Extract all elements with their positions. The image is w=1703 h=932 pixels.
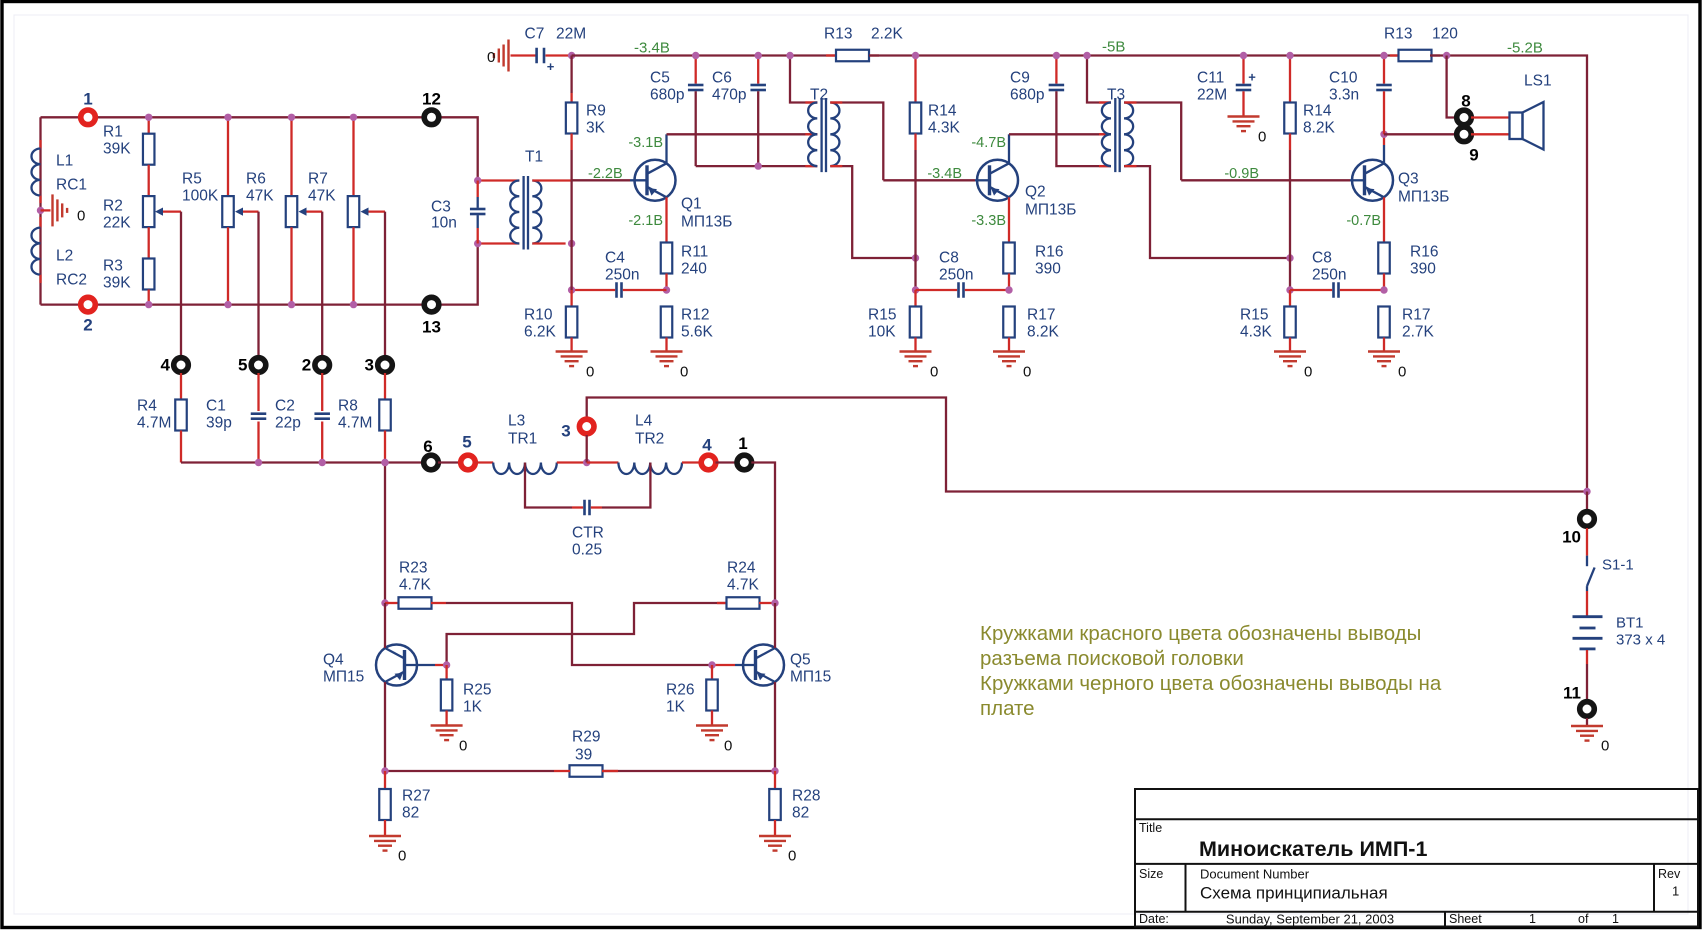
svg-text:C10: C10 (1329, 70, 1358, 87)
svg-text:5.6K: 5.6K (681, 324, 714, 341)
svg-text:Size: Size (1139, 867, 1163, 881)
wire pin3 column to R23 (384, 463, 386, 604)
svg-text:-0.7В: -0.7В (1346, 213, 1381, 229)
wire T2 secondary top (830, 103, 883, 181)
svg-text:3: 3 (561, 422, 570, 441)
svg-text:+: + (1248, 70, 1256, 85)
svg-text:2: 2 (83, 316, 92, 335)
svg-text:R24: R24 (727, 560, 756, 577)
node R6 bottom (288, 301, 295, 308)
resistor R4 4.7M (180, 373, 182, 400)
svg-text:S1-1: S1-1 (1602, 557, 1634, 574)
svg-text:Sheet: Sheet (1449, 912, 1482, 926)
svg-text:10: 10 (1562, 528, 1581, 547)
wire T3 secondary top (1124, 103, 1181, 181)
ground R28 (759, 835, 791, 837)
svg-text:0.25: 0.25 (572, 542, 602, 559)
svg-text:Sunday, September 21, 2003: Sunday, September 21, 2003 (1226, 912, 1394, 927)
svg-text:0: 0 (680, 364, 688, 381)
svg-text:0: 0 (1601, 738, 1609, 755)
wire T1 primary left bottom (478, 242, 520, 244)
node R11 bottom (663, 286, 670, 293)
wire to speaker pin 8 (1447, 56, 1457, 118)
wire R29 leads (554, 770, 570, 772)
wire R14b node down (1289, 258, 1291, 290)
svg-text:22p: 22p (275, 415, 301, 432)
svg-text:120: 120 (1432, 26, 1458, 43)
wire R2 wiper to pin 4 (180, 212, 182, 357)
transistor Q2 MP13B (977, 160, 1018, 201)
svg-text:R4: R4 (137, 398, 157, 415)
svg-text:CTR: CTR (572, 525, 604, 542)
wire top loop right (441, 117, 478, 180)
svg-text:3K: 3K (586, 120, 606, 137)
node R24 right (771, 599, 778, 606)
ground R15 (900, 350, 932, 352)
resistor R15 10K (914, 290, 916, 307)
svg-text:4.7M: 4.7M (338, 415, 372, 432)
svg-text:1K: 1K (666, 699, 686, 716)
wire Q5 collector (774, 603, 776, 648)
wire Q4 base cross-couple to R24 (447, 603, 727, 665)
svg-text:0: 0 (788, 848, 796, 865)
svg-text:TR1: TR1 (508, 431, 537, 448)
svg-text:470p: 470p (712, 87, 746, 104)
svg-text:4: 4 (161, 356, 171, 375)
resistor R13 2.2K (826, 54, 836, 56)
resistor R28 82 (774, 771, 776, 789)
ground C11 (1228, 115, 1260, 117)
svg-text:12: 12 (422, 90, 441, 109)
svg-text:250n: 250n (605, 267, 639, 284)
resistor R15 4.3K (1289, 290, 1291, 307)
node supply C7 (568, 52, 575, 59)
head pin 8 (black) (1454, 108, 1474, 128)
svg-text:-3.4В: -3.4В (927, 166, 962, 182)
ground R10 (556, 350, 588, 352)
capacitor C3 10n (477, 181, 479, 198)
svg-text:240: 240 (681, 261, 707, 278)
node C11 top (1240, 52, 1247, 59)
resistor R1 39K (148, 117, 150, 133)
head pin 5 (red) (458, 453, 478, 473)
wire Q1 collector to T2 mid (667, 133, 818, 135)
board pin 5 (black) (249, 355, 269, 375)
svg-text:R8: R8 (338, 398, 358, 415)
board pin 3 (black) (375, 355, 395, 375)
svg-text:R25: R25 (463, 682, 491, 699)
svg-text:R10: R10 (524, 307, 553, 324)
svg-text:-0.9В: -0.9В (1224, 166, 1259, 182)
svg-text:R13: R13 (1384, 26, 1412, 43)
node T3 secondary bottom (1286, 254, 1293, 261)
ground coil midpoint (51, 194, 53, 226)
svg-text:6: 6 (423, 437, 432, 456)
node R23 left (381, 599, 388, 606)
node T1 primary bottom (474, 240, 481, 247)
svg-text:0: 0 (1023, 364, 1031, 381)
resistor R16 390 (1003, 243, 1015, 274)
wire R7 wiper to pin 3 (384, 212, 386, 357)
svg-text:22M: 22M (1197, 87, 1227, 104)
board pin 6 (black) (421, 453, 441, 473)
node T2 secondary bottom (912, 254, 919, 261)
svg-text:8: 8 (1461, 92, 1470, 111)
wire C7 to node (546, 54, 572, 56)
wire long feedback horizontal (587, 398, 1587, 492)
svg-text:R7: R7 (308, 171, 328, 188)
svg-text:4.7K: 4.7K (727, 577, 760, 594)
svg-text:4.7M: 4.7M (137, 415, 171, 432)
capacitor C5 680p (695, 56, 697, 84)
board pin 13 (black) (422, 295, 442, 315)
node C1 bottom (255, 459, 262, 466)
svg-text:плате: плате (980, 697, 1035, 720)
node T2 top rail (786, 52, 793, 59)
node T3 top rail (1083, 52, 1090, 59)
wire C5 C6 to T2 primary bottom (696, 165, 818, 167)
battery BT1 373x4 (1573, 615, 1603, 618)
svg-text:L4: L4 (635, 413, 653, 430)
wire R6 wiper to pin 2 (321, 212, 323, 357)
svg-text:10n: 10n (431, 215, 457, 232)
ground R26 (696, 724, 728, 726)
wire T2 secondary to Q2 base (883, 179, 975, 181)
svg-text:2.2K: 2.2K (871, 26, 904, 43)
speaker LS1 (1510, 113, 1523, 140)
svg-text:0: 0 (398, 848, 406, 865)
wire to pin 10 (1586, 492, 1588, 511)
svg-text:82: 82 (792, 805, 809, 822)
node C8b left (1286, 286, 1293, 293)
svg-text:RC2: RC2 (56, 272, 87, 289)
wire supply rail segment 2 (869, 54, 1400, 56)
node R3 bottom (145, 301, 152, 308)
svg-text:Миноискатель ИМП-1: Миноискатель ИМП-1 (1199, 837, 1427, 861)
board pin 12 (black) (422, 108, 442, 128)
svg-text:4.3K: 4.3K (1240, 324, 1273, 341)
wire Q2 emitter (1008, 197, 1010, 242)
ground R17 (993, 350, 1025, 352)
resistor R11 240 (661, 243, 673, 274)
head pin 3 (red) (577, 417, 597, 437)
resistor R14 8.2K (1289, 56, 1291, 103)
svg-text:R12: R12 (681, 307, 709, 324)
svg-text:39K: 39K (103, 275, 131, 292)
capacitor C8 250n stage3 (1290, 289, 1332, 291)
wire bottom loop (41, 303, 423, 305)
svg-text:R1: R1 (103, 124, 123, 141)
svg-text:250n: 250n (1312, 267, 1346, 284)
connector pin 2 (red) (78, 295, 98, 315)
node Q3 collector (1380, 131, 1387, 138)
svg-text:390: 390 (1410, 261, 1436, 278)
svg-text:6.2K: 6.2K (524, 324, 557, 341)
coil L4 TR2 (618, 463, 682, 475)
wire R14 node down (914, 258, 916, 290)
resistor R29 39 (570, 765, 603, 777)
svg-text:47K: 47K (246, 188, 274, 205)
svg-text:0: 0 (586, 364, 594, 381)
resistor R14 4.3K (914, 56, 916, 103)
wire R23 to Q5 base (446, 603, 712, 665)
node R14 top (912, 52, 919, 59)
svg-text:R27: R27 (402, 788, 430, 805)
resistor R26 1K (711, 665, 713, 680)
resistor R25 1K (445, 665, 447, 680)
svg-text:Q4: Q4 (323, 652, 344, 669)
resistor R17 2.7K (1378, 307, 1390, 338)
node C10 top (1380, 52, 1387, 59)
svg-text:C3: C3 (431, 199, 451, 216)
node R6 top (288, 114, 295, 121)
svg-text:Title: Title (1139, 821, 1162, 835)
svg-text:0: 0 (1304, 364, 1312, 381)
svg-text:L3: L3 (508, 413, 525, 430)
svg-text:0: 0 (77, 208, 85, 225)
node R14b top (1286, 52, 1293, 59)
svg-text:R29: R29 (572, 729, 600, 746)
node Q4 base (443, 661, 450, 668)
svg-text:T2: T2 (810, 87, 828, 104)
svg-text:1: 1 (1529, 912, 1536, 926)
svg-text:R28: R28 (792, 788, 820, 805)
svg-text:R14: R14 (928, 103, 957, 120)
ground at C7 (507, 40, 509, 72)
capacitor C2 22p (321, 373, 323, 411)
wire Q2 collector (1008, 134, 1010, 163)
wire pin1 to Q5 collector column (751, 463, 775, 604)
svg-text:R9: R9 (586, 103, 606, 120)
svg-text:Date:: Date: (1139, 912, 1169, 926)
wire T3 secondary to Q3 base (1181, 179, 1350, 181)
node C4 left (568, 286, 575, 293)
node R1 top (145, 114, 152, 121)
capacitor C4 250n (572, 289, 616, 291)
svg-text:0: 0 (459, 738, 467, 755)
svg-text:5: 5 (462, 433, 471, 452)
wire node to L4 (587, 461, 619, 463)
svg-text:T1: T1 (525, 149, 543, 166)
svg-text:R16: R16 (1410, 244, 1438, 261)
svg-text:11: 11 (1563, 684, 1581, 703)
svg-text:4.7K: 4.7K (399, 577, 432, 594)
resistor R23 4.7K (385, 602, 399, 604)
node terminal row pin3 (381, 459, 388, 466)
wire Q4 base lead (405, 664, 436, 666)
wire T2 primary top to rail (790, 56, 817, 103)
wire T1 secondary top to base (532, 179, 571, 181)
resistor R17 8.2K (1003, 307, 1015, 338)
svg-text:0: 0 (487, 49, 495, 66)
svg-text:МП15: МП15 (790, 669, 831, 686)
svg-text:C8: C8 (1312, 250, 1332, 267)
wire pin8 to speaker (1471, 116, 1510, 118)
svg-text:2.7K: 2.7K (1402, 324, 1435, 341)
head pin 4 (red) (699, 453, 719, 473)
wire T1 secondary bottom (532, 242, 565, 244)
wire switch to battery (1586, 591, 1588, 616)
svg-text:R17: R17 (1402, 307, 1430, 324)
transistor Q3 MP13B (1352, 160, 1393, 201)
resistor R8 4.7M (384, 373, 386, 400)
svg-text:680p: 680p (650, 87, 684, 104)
coil L3 TR1 (493, 463, 557, 475)
board pin 11 (black) (1577, 699, 1597, 719)
svg-text:3.3n: 3.3n (1329, 87, 1359, 104)
svg-text:Кружками красного цвета обозна: Кружками красного цвета обозначены вывод… (980, 622, 1421, 645)
node coil midpoint (37, 207, 44, 214)
node C2 bottom (319, 459, 326, 466)
wire pin3 stub (586, 435, 588, 463)
wire pin 11 to ground (1586, 718, 1588, 726)
svg-text:LS1: LS1 (1524, 73, 1552, 90)
transistor Q5 MP15 (743, 645, 784, 686)
board pin 2 (black) (312, 355, 332, 375)
svg-text:L1: L1 (56, 153, 73, 170)
transformer T1 (510, 181, 519, 244)
board pin 4 (black) (171, 355, 191, 375)
svg-text:R13: R13 (824, 26, 852, 43)
wire R9 to T1 node (570, 180, 572, 243)
svg-text:5: 5 (238, 356, 247, 375)
board pin 1 (black) (735, 453, 755, 473)
capacitor C8 250n (916, 289, 958, 291)
node R5 top (224, 114, 231, 121)
svg-text:100K: 100K (182, 188, 219, 205)
switch S1-1 (1586, 556, 1588, 567)
ground R27 (369, 835, 401, 837)
svg-text:-4.7В: -4.7В (971, 135, 1006, 151)
resistor R9 3K (570, 56, 572, 94)
resistor R3 39K (148, 227, 150, 258)
node battery column (1583, 488, 1590, 495)
node C8 left (912, 286, 919, 293)
svg-text:82: 82 (402, 805, 419, 822)
svg-text:10K: 10K (868, 324, 896, 341)
svg-text:250n: 250n (939, 267, 973, 284)
wire T2 secondary bottom (830, 166, 915, 258)
svg-text:Схема принципиальная: Схема принципиальная (1200, 884, 1388, 903)
svg-text:of: of (1578, 912, 1589, 926)
head pin 9 (black) (1454, 125, 1474, 145)
svg-text:-3.3В: -3.3В (971, 213, 1006, 229)
transformer T3 (1102, 103, 1111, 167)
svg-text:-5В: -5В (1102, 39, 1125, 56)
wire pin9 to speaker (1471, 133, 1510, 135)
svg-text:-3.1В: -3.1В (628, 135, 663, 151)
wire emitter rail (385, 770, 554, 772)
wire Q4 collector (384, 603, 386, 648)
ground R12 (651, 350, 683, 352)
svg-text:0: 0 (1258, 129, 1266, 146)
svg-text:МП13Б: МП13Б (681, 214, 732, 231)
svg-text:13: 13 (422, 318, 441, 337)
wire Q3 collector (1383, 145, 1385, 163)
svg-text:C2: C2 (275, 398, 295, 415)
svg-text:МП13Б: МП13Б (1025, 202, 1076, 219)
connector pin 1 (red) (78, 108, 98, 128)
svg-text:3: 3 (365, 356, 374, 375)
wire T3 primary top to rail (1087, 56, 1111, 103)
svg-text:8.2K: 8.2K (1027, 324, 1060, 341)
wire T3 secondary bottom (1124, 166, 1290, 258)
svg-text:R26: R26 (666, 682, 694, 699)
resistor R10 6.2K (570, 290, 572, 307)
capacitor CTR 0.25 (525, 463, 572, 508)
svg-text:-3.4В: -3.4В (634, 40, 670, 57)
node Q5 base (708, 661, 715, 668)
svg-text:C11: C11 (1197, 70, 1224, 87)
ground R15b (1274, 350, 1306, 352)
wire L3 to node (557, 461, 587, 463)
wire Q5 emitter (774, 682, 776, 771)
svg-text:Кружками черного цвета обознач: Кружками черного цвета обозначены выводы… (980, 672, 1442, 695)
node C6 top (755, 52, 762, 59)
wire left side (39, 117, 41, 304)
wire terminal row (181, 461, 424, 463)
node C8b right (1380, 286, 1387, 293)
svg-text:МП15: МП15 (323, 669, 364, 686)
node emitter rail right (771, 767, 778, 774)
wire supply rail segment 1 (572, 54, 836, 56)
svg-text:373 x 4: 373 x 4 (1616, 632, 1665, 649)
wire Q5 base lead (712, 664, 735, 666)
svg-text:L2: L2 (56, 248, 73, 265)
svg-text:RC1: RC1 (56, 177, 87, 194)
svg-text:Document Number: Document Number (1200, 867, 1310, 882)
ground R17b (1368, 350, 1400, 352)
svg-text:Q3: Q3 (1398, 171, 1419, 188)
resistor R27 82 (384, 771, 386, 789)
svg-text:R14: R14 (1303, 103, 1332, 120)
wire L4 to pin 4 (682, 461, 702, 463)
transistor Q4 MP15 (376, 645, 417, 686)
transistor Q1 MP13B (635, 160, 676, 201)
wire to ground (41, 209, 51, 211)
svg-text:9: 9 (1469, 146, 1478, 165)
svg-text:-2.1В: -2.1В (628, 213, 663, 229)
svg-text:Rev: Rev (1658, 867, 1681, 881)
svg-text:R17: R17 (1027, 307, 1055, 324)
svg-text:47K: 47K (308, 188, 336, 205)
svg-text:0: 0 (1398, 364, 1406, 381)
potentiometer R5 100K (227, 117, 229, 196)
svg-text:0: 0 (930, 364, 938, 381)
svg-text:C1: C1 (206, 398, 226, 415)
svg-text:1K: 1K (463, 699, 483, 716)
svg-text:Q2: Q2 (1025, 184, 1046, 201)
svg-text:Q5: Q5 (790, 652, 811, 669)
capacitor C7 22M (535, 48, 538, 64)
node emitter rail left (381, 767, 388, 774)
title block frame (1135, 789, 1698, 927)
svg-text:C6: C6 (712, 70, 732, 87)
svg-text:0: 0 (724, 738, 732, 755)
svg-text:22K: 22K (103, 215, 131, 232)
potentiometer R2 22K (148, 165, 150, 196)
wire Q1 collector (665, 134, 667, 163)
wire top loop (41, 116, 423, 118)
node C9 top (1053, 52, 1060, 59)
svg-text:1: 1 (1672, 884, 1679, 899)
resistor R13 120 (1390, 54, 1400, 56)
potentiometer R6 47K (290, 117, 292, 196)
node T1 primary top (474, 177, 481, 184)
wire emitter rail right (602, 770, 775, 772)
node C8 right (1005, 286, 1012, 293)
wire pin6 to pin5 (438, 461, 461, 463)
